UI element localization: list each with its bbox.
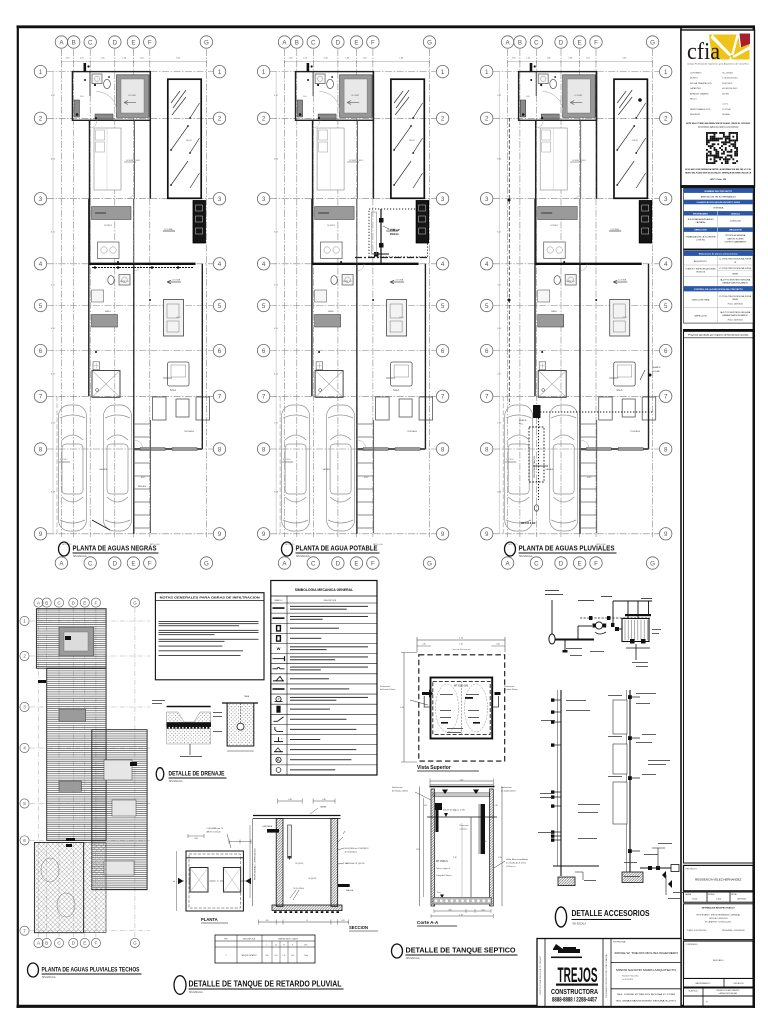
svg-text:de 12/20x40cm: de 12/20x40cm xyxy=(345,852,358,854)
svg-text:@15cm a.a.: @15cm a.a. xyxy=(506,866,516,868)
svg-text:0.15: 0.15 xyxy=(341,920,344,922)
roof plan title xyxy=(28,963,39,977)
svg-text:PLANO: 4-591756-2019: PLANO: 4-591756-2019 xyxy=(687,929,706,932)
svg-text:8888-8888 / 2288-4457: 8888-8888 / 2288-4457 xyxy=(552,998,597,1004)
svg-text:NOMBRE DEL PROYECTO: NOMBRE DEL PROYECTO xyxy=(704,191,732,193)
pump symbol xyxy=(595,622,602,629)
flow triangles xyxy=(442,790,448,795)
black separator bar xyxy=(681,185,755,188)
svg-text:DETALLE ACCESORIOS: DETALLE ACCESORIOS xyxy=(572,908,650,918)
svg-text:SIN ESCALA: SIN ESCALA xyxy=(573,923,587,926)
svg-text:PROVINCIA: HEREDIA: PROVINCIA: HEREDIA xyxy=(725,234,746,237)
svg-text:DETALLE DE TANQUE DE RETARDO P: DETALLE DE TANQUE DE RETARDO PLUVIAL xyxy=(189,980,342,989)
qr code xyxy=(706,132,738,164)
svg-text:B: B xyxy=(45,600,48,605)
svg-text:CONTROL DE LA EJECUCION DEL PR: CONTROL DE LA EJECUCION DEL PROYECTO xyxy=(694,288,743,291)
svg-text:CONSTRUCTORA: CONSTRUCTORA xyxy=(551,987,598,996)
svg-text:VIVIENDA: VIVIENDA xyxy=(713,206,724,209)
dims vista superior xyxy=(417,639,505,641)
svg-text:CLASIFICACION SEGUN DECRETO 36: CLASIFICACION SEGUN DECRETO 36550 xyxy=(697,201,741,204)
svg-text:L: L xyxy=(267,944,268,946)
bottom rows xyxy=(684,979,754,988)
proyecto name box xyxy=(684,865,754,890)
left rotated dim strip xyxy=(252,818,254,906)
right dims xyxy=(501,787,503,907)
svg-text:0.65: 0.65 xyxy=(483,841,487,843)
svg-text:4: 4 xyxy=(23,746,26,751)
svg-text:FINCA REAL: 4-234436-000: FINCA REAL: 4-234436-000 xyxy=(722,929,745,932)
svg-text:PLANTILLA: PLANTILLA xyxy=(689,990,699,993)
svg-text:Nivel de Agua 0.20: Nivel de Agua 0.20 xyxy=(443,809,466,812)
svg-text:SIMBOLOGIA MECANICA GENERAL: SIMBOLOGIA MECANICA GENERAL xyxy=(295,588,353,592)
svg-text:SIN ESCALA: SIN ESCALA xyxy=(519,555,533,558)
svg-text:en Varilla de 4.5mm: en Varilla de 4.5mm xyxy=(506,863,527,865)
inner tiny labels xyxy=(440,693,453,696)
svg-text:SELLO: SELLO xyxy=(690,99,697,101)
accessory vertical pipe left xyxy=(560,690,562,876)
svg-text:N* CATASTRO: H-1309114-2012: N* CATASTRO: H-1309114-2012 xyxy=(705,921,731,924)
svg-text:CONTRATO: CONTRATO xyxy=(690,72,702,75)
svg-text:DETALLE DE TANQUE SEPTICO: DETALLE DE TANQUE SEPTICO xyxy=(406,946,516,955)
top feed line xyxy=(613,600,652,602)
contenido box xyxy=(684,941,754,979)
roof black marks xyxy=(38,636,137,847)
svg-text:URBANIZACION LA FLORESTA: URBANIZACION LA FLORESTA xyxy=(686,236,717,239)
heater tank xyxy=(622,619,649,642)
retardo table xyxy=(215,935,315,963)
floor plan: agua potable xyxy=(257,36,448,569)
svg-text:RESIDENCIA VELEZ HERNANDEZ: RESIDENCIA VELEZ HERNANDEZ xyxy=(695,878,741,882)
svg-text:C 56,054,128.00: C 56,054,128.00 xyxy=(722,78,738,80)
svg-text:Pasa entre: Pasa entre xyxy=(460,824,469,827)
svg-text:VARILLA #3 @0.20: VARILLA #3 @0.20 xyxy=(345,862,365,865)
svg-text:Perforacion: Perforacion xyxy=(501,786,512,789)
svg-text:COLUMNA con #4: COLUMNA con #4 xyxy=(207,827,224,830)
svg-text:W: W xyxy=(277,646,281,651)
svg-text:2: 2 xyxy=(23,654,26,659)
svg-text:DIRECCION: DIRECCION xyxy=(694,230,707,232)
svg-text:1.40: 1.40 xyxy=(459,644,462,646)
svg-text:SECCION: SECCION xyxy=(349,925,368,930)
svg-text:Linea de Excavacion: Linea de Excavacion xyxy=(452,649,470,651)
svg-text:0.40: 0.40 xyxy=(322,799,326,801)
symbology table xyxy=(271,581,377,776)
svg-text:PLANTA DE AGUA POTABLE: PLANTA DE AGUA POTABLE xyxy=(296,544,378,553)
svg-text:F: F xyxy=(94,600,97,605)
gravel bottom xyxy=(433,898,492,905)
svg-text:1.36: 1.36 xyxy=(459,914,462,916)
svg-text:Camaras: Camaras xyxy=(460,828,468,831)
salida xyxy=(338,884,350,887)
retardo seccion xyxy=(253,815,341,817)
project data table xyxy=(684,188,754,323)
plan3 pluvial downspout dashes xyxy=(508,118,510,405)
svg-text:PROFESIONAL:: PROFESIONAL: xyxy=(613,941,627,944)
svg-text:Fecha: 13/07/2022: Fecha: 13/07/2022 xyxy=(728,304,743,306)
svg-text:1.15: 1.15 xyxy=(283,955,286,957)
septic tank top view dashed excavation xyxy=(419,655,505,761)
registro publico box xyxy=(684,904,754,940)
svg-text:OC-129456: OC-129456 xyxy=(722,73,734,75)
svg-text:PLANTA DE AGUAS NEGRAS: PLANTA DE AGUAS NEGRAS xyxy=(73,544,157,553)
septic corte walls xyxy=(430,786,495,788)
svg-text:0.60: 0.60 xyxy=(194,838,198,840)
svg-text:Cargo del Cliente: Cargo del Cliente xyxy=(436,874,452,877)
svg-text:de salida 100mm: de salida 100mm xyxy=(504,689,518,691)
inlet outlet arrows xyxy=(422,690,433,698)
svg-text:CONTENIDO:: CONTENIDO: xyxy=(686,944,699,946)
svg-text:Cel: 8750-0974: Cel: 8750-0974 xyxy=(622,979,633,981)
svg-text:Ø12mm: Ø12mm xyxy=(390,233,399,236)
svg-text:PLANTA: PLANTA xyxy=(201,917,218,922)
svg-text:MONTO: MONTO xyxy=(690,78,698,80)
svg-text:PROPIETARIO: PROPIETARIO xyxy=(693,212,708,215)
svg-text:AMPLIACION VELEZ HERNANDEZ: AMPLIACION VELEZ HERNANDEZ xyxy=(701,195,737,198)
svg-text:PLANTA DE AGUAS PLUVIALES TECH: PLANTA DE AGUAS PLUVIALES TECHOS xyxy=(42,967,141,974)
svg-text:DIMENSIONES TOTALES: DIMENSIONES TOTALES xyxy=(278,937,299,940)
inlet elbow left xyxy=(435,803,442,832)
svg-text:TIPO: TIPO xyxy=(224,938,229,940)
svg-text:7: 7 xyxy=(23,928,26,933)
svg-text:APC / Folio 123: APC / Folio 123 xyxy=(710,178,727,181)
svg-text:SIN ESCALA: SIN ESCALA xyxy=(42,976,56,979)
svg-text:Vista Superior: Vista Superior xyxy=(417,765,451,771)
svg-text:Colegio Federado de Ingenieros: Colegio Federado de Ingenieros y de Arqu… xyxy=(687,63,750,66)
roof crosshatch patio xyxy=(34,843,83,933)
svg-text:Corte A-A: Corte A-A xyxy=(417,920,439,925)
svg-text:#3 @0.20: #3 @0.20 xyxy=(308,878,316,880)
svg-text:1.10: 1.10 xyxy=(453,857,457,859)
svg-text:UBICACION: UBICACION xyxy=(729,229,742,232)
svg-text:TUB AP: TUB AP xyxy=(390,228,400,232)
svg-text:PROYECTO:: PROYECTO: xyxy=(686,869,698,871)
svg-text:IA-27971 MONTERO SEGURA: IA-27971 MONTERO SEGURA xyxy=(720,311,751,314)
svg-text:de Entrada 100mm: de Entrada 100mm xyxy=(392,790,409,793)
svg-text:G: G xyxy=(133,600,137,605)
dashed supply line xyxy=(580,617,650,619)
svg-text:DIRECCION OBRA: DIRECCION OBRA xyxy=(692,299,710,302)
svg-text:1.20: 1.20 xyxy=(498,857,502,859)
svg-text:B: B xyxy=(45,941,48,946)
title block separator xyxy=(680,27,682,1006)
septic corte A-A top dims xyxy=(430,780,493,782)
svg-text:5: 5 xyxy=(23,801,26,806)
svg-text:F: F xyxy=(94,941,97,946)
svg-text:UBICACION: UBICACION xyxy=(734,982,745,985)
svg-text:DIGITAL: DIGITAL xyxy=(722,113,731,116)
svg-text:JESUS MARIA HERNANDEZ: JESUS MARIA HERNANDEZ xyxy=(687,218,714,221)
svg-text:RED A.N.: RED A.N. xyxy=(138,485,147,488)
svg-text:CARVAJAL: CARVAJAL xyxy=(695,221,706,224)
svg-text:IC-27946 TREJOS MOLINA JORGE: IC-27946 TREJOS MOLINA JORGE xyxy=(719,258,752,261)
svg-text:6: 6 xyxy=(23,838,26,843)
svg-text:SEBASTIAN EDUARDO: SEBASTIAN EDUARDO xyxy=(722,314,749,317)
svg-text:C.I.V.L.: C.I.V.L. xyxy=(722,104,729,106)
svg-text:0.85: 0.85 xyxy=(448,909,451,911)
svg-text:Pluv: Pluv xyxy=(519,424,523,426)
svg-text:CEDULA: CEDULA xyxy=(731,212,741,215)
svg-text:ING. SEBASTIAN MONTERO SEGURA: ING. SEBASTIAN MONTERO SEGURA IS-27971 xyxy=(616,1000,677,1003)
svg-text:de Entrada 100mm: de Entrada 100mm xyxy=(380,688,396,691)
svg-text:BLOQUES de CONCRETO: BLOQUES de CONCRETO xyxy=(345,848,370,850)
title plan 3 xyxy=(505,542,516,556)
svg-text:INSPECCION: INSPECCION xyxy=(694,316,707,318)
drainage well detail xyxy=(227,703,254,746)
floor plan: aguas negras xyxy=(34,36,225,569)
svg-text:13/07/2022: 13/07/2022 xyxy=(722,83,733,85)
svg-text:Fecha: 13/07/2022: Fecha: 13/07/2022 xyxy=(728,319,743,321)
retardo title xyxy=(174,976,186,995)
plan3 pluvial route xyxy=(533,405,541,418)
svg-text:TAPAS: TAPAS xyxy=(320,806,327,809)
svg-text:CATASTRO: CATASTRO xyxy=(690,87,701,90)
svg-text:169 M2: 169 M2 xyxy=(722,93,730,95)
svg-text:MSMR: MSMR xyxy=(733,273,739,275)
cfia sticker box xyxy=(681,30,755,187)
middle divider xyxy=(470,817,472,897)
svg-text:SIN ESCALA: SIN ESCALA xyxy=(169,780,183,783)
svg-text:REVISION: REVISION xyxy=(690,114,700,116)
svg-text:SIN ESCALA: SIN ESCALA xyxy=(296,555,310,558)
svg-text:ARQUITECTO: ARQUITECTO xyxy=(694,260,708,263)
svg-text:MT 1500-S: MT 1500-S xyxy=(436,860,448,863)
accessory title xyxy=(555,907,566,927)
svg-text:IC-27946 TREJOS MOLINA JORGE: IC-27946 TREJOS MOLINA JORGE xyxy=(719,295,752,298)
floor plan: aguas pluviales xyxy=(481,36,672,569)
svg-text:G: G xyxy=(133,941,137,946)
roof plan grid xyxy=(38,608,40,938)
svg-text:Perforacion: Perforacion xyxy=(380,686,390,688)
drainage section detail xyxy=(167,706,211,708)
svg-text:Perforacion: Perforacion xyxy=(504,686,514,688)
svg-text:CANTON: FLORES: CANTON: FLORES xyxy=(727,237,744,240)
svg-text:0.40: 0.40 xyxy=(288,799,292,801)
retardo planta xyxy=(186,851,243,911)
svg-text:SIN ESCALA: SIN ESCALA xyxy=(73,555,87,558)
drainage title xyxy=(156,768,164,781)
roof hatched areas xyxy=(36,609,106,669)
svg-text:de Salida 100mm: de Salida 100mm xyxy=(501,791,516,793)
title plan 1 xyxy=(59,542,70,556)
accessory cluster top xyxy=(549,634,555,644)
svg-text:IC-27946: IC-27946 xyxy=(722,109,731,111)
plan1 sanitary pipe marks xyxy=(92,267,193,269)
svg-text:IC-27946 TREJOS MOLINA JORGE: IC-27946 TREJOS MOLINA JORGE xyxy=(719,267,752,270)
svg-text:SIMBOLO: SIMBOLO xyxy=(274,600,283,602)
svg-text:1: 1 xyxy=(23,619,26,624)
svg-text:TECNICOS: TECNICOS xyxy=(696,272,706,274)
notes box NOTAS GENERALES xyxy=(155,593,264,680)
svg-text:1.45: 1.45 xyxy=(400,707,404,709)
svg-text:TANQUE RETARDO: TANQUE RETARDO xyxy=(241,954,257,957)
septic tank body top view xyxy=(431,678,493,739)
svg-text:#3 @0.20: #3 @0.20 xyxy=(295,863,303,865)
svg-text:SEBASTIAN EDUARDO: SEBASTIAN EDUARDO xyxy=(722,282,749,285)
svg-text:H-1309114-2012: H-1309114-2012 xyxy=(722,88,738,90)
svg-text:NOTAS GENERALES PARA OBRAS DE: NOTAS GENERALES PARA OBRAS DE INFILTRACI… xyxy=(160,595,260,599)
svg-text:DISTRITO: BARRANTES: DISTRITO: BARRANTES xyxy=(725,241,747,244)
svg-text:cfia: cfia xyxy=(687,39,720,65)
svg-text:ESTE SELLO TIENE VAN RADIACION: ESTE SELLO TIENE VAN RADIACION DE UN ANO… xyxy=(686,122,751,125)
svg-text:ING. JORGE W TREJOS MOLINA IC-: ING. JORGE W TREJOS MOLINA IC-27946 xyxy=(617,993,676,996)
bottom dim xyxy=(258,921,348,923)
svg-text:RESPONSABLE POR: RESPONSABLE POR xyxy=(690,108,711,111)
lamina/escala/fecha row xyxy=(684,892,754,902)
approval declaration box xyxy=(684,330,754,332)
svg-text:E: E xyxy=(83,941,86,946)
water line xyxy=(427,816,497,818)
svg-text:IA-27971 MONTERO SEGURA: IA-27971 MONTERO SEGURA xyxy=(720,278,751,281)
svg-text:SUBE B.: SUBE B. xyxy=(519,420,527,422)
svg-text:0.90: 0.90 xyxy=(266,955,269,957)
svg-text:1.40: 1.40 xyxy=(460,779,464,781)
svg-text:DESCRIPCION: DESCRIPCION xyxy=(324,600,337,602)
svg-text:DETALLE DE DRENAJE: DETALLE DE DRENAJE xyxy=(169,771,225,778)
svg-text:JORGE W. TREJOS MOLINA INGENIE: JORGE W. TREJOS MOLINA INGENIERO xyxy=(614,952,678,955)
svg-text:VOL: VOL xyxy=(304,944,307,946)
svg-text:1.00: 1.00 xyxy=(291,955,294,957)
svg-text:BAJANTE: BAJANTE xyxy=(652,366,661,369)
svg-text:CEDULA: 2-0309-0150: CEDULA: 2-0309-0150 xyxy=(709,917,727,920)
svg-text:PROPIETARIO: JESUS HERNANDEZ C: PROPIETARIO: JESUS HERNANDEZ CARVAJAL xyxy=(696,914,740,917)
svg-text:2-0309-0150: 2-0309-0150 xyxy=(730,221,742,223)
roof gray boxes xyxy=(59,627,94,656)
svg-text:0.16: 0.16 xyxy=(494,805,497,807)
svg-text:SALIDA: SALIDA xyxy=(346,889,354,892)
title plan 2 xyxy=(282,542,293,556)
svg-text:FECHA TRAMITACION: FECHA TRAMITACION xyxy=(690,82,712,85)
svg-text:0.20: 0.20 xyxy=(424,805,427,807)
cluster labels xyxy=(545,589,559,592)
svg-text:SIN ESCALA: SIN ESCALA xyxy=(189,991,203,994)
plan2 potable piping route dotted rect xyxy=(369,209,428,257)
trejos logo xyxy=(551,944,598,1004)
svg-text:1.50: 1.50 xyxy=(416,849,420,851)
under dims xyxy=(434,910,491,912)
svg-text:0.40: 0.40 xyxy=(422,644,425,646)
svg-text:Proyecto aprobado por regimen: Proyecto aprobado por regimen de Declara… xyxy=(688,334,749,337)
svg-text:0.40: 0.40 xyxy=(496,644,499,646)
svg-text:Valla Electrosoldada: Valla Electrosoldada xyxy=(506,858,529,861)
svg-text:INDICADO: INDICADO xyxy=(713,959,724,962)
svg-text:AREA DE TRAMITE: AREA DE TRAMITE xyxy=(690,92,709,95)
svg-text:PROHIBIDA SU REPRODUCCION TOTA: PROHIBIDA SU REPRODUCCION TOTAL O PARCIA… xyxy=(605,954,608,998)
svg-text:SI NO HAY CONCORDANCIA ENTRE L: SI NO HAY CONCORDANCIA ENTRE LA INFORMAC… xyxy=(685,168,752,171)
svg-text:MT 1500 S/B: MT 1500 S/B xyxy=(454,685,468,688)
outlet pipe right xyxy=(481,804,486,854)
bottom band frame xyxy=(537,939,681,1007)
svg-text:Tema y sujeta a: Tema y sujeta a xyxy=(436,867,451,870)
svg-text:1:100: 1:100 xyxy=(716,899,722,901)
page border xyxy=(17,25,756,28)
tapas dims xyxy=(278,800,303,802)
svg-text:ND 100 8 GR: ND 100 8 GR xyxy=(521,522,536,525)
svg-text:(vencindonos aplica otros plan: (vencindonos aplica otros planos constru… xyxy=(698,126,738,129)
cfia logo xyxy=(687,34,750,66)
accessory vertical pipe right xyxy=(629,690,631,872)
svg-text:ENTRADA: ENTRADA xyxy=(263,825,273,828)
svg-text:PLANOS Y ESPECIFICACIONES: PLANOS Y ESPECIFICACIONES xyxy=(686,267,717,270)
svg-text:Elaboracion de planos y Docume: Elaboracion de planos y Documentos xyxy=(699,252,739,255)
septic title xyxy=(392,944,403,958)
svg-text:0.15: 0.15 xyxy=(265,920,268,922)
svg-text:INFORMACION REGISTRO PUBLICO: INFORMACION REGISTRO PUBLICO xyxy=(702,907,736,910)
svg-text:3: 3 xyxy=(23,705,26,710)
svg-text:MANTENIMIENTO: MANTENIMIENTO xyxy=(695,982,711,985)
svg-text:DESCRIPCION: DESCRIPCION xyxy=(243,938,256,940)
svg-text:E: E xyxy=(83,600,86,605)
svg-text:MSMR: MSMR xyxy=(733,299,739,301)
svg-text:LOTE 7B2: LOTE 7B2 xyxy=(696,240,705,242)
svg-text:13/07/2022: 13/07/2022 xyxy=(737,899,746,901)
svg-text:TAPA: TAPA xyxy=(244,695,250,698)
svg-text:SIN ESCALA: SIN ESCALA xyxy=(406,957,420,960)
svg-text:Perforacion: Perforacion xyxy=(392,786,403,789)
accessory cluster bottom right mini xyxy=(640,867,674,869)
svg-text:#3 @0.20 A 0: #3 @0.20 A 0 xyxy=(293,887,304,890)
svg-text:RESTO DEL PLANO ESTE NO ES VAL: RESTO DEL PLANO ESTE NO ES VALIDO. VERIF… xyxy=(685,172,752,175)
svg-text:PLANTA DE AGUAS PLUVIALES: PLANTA DE AGUAS PLUVIALES xyxy=(519,544,615,553)
svg-text:1.00: 1.00 xyxy=(275,955,278,957)
svg-text:CONSTRUCTORA TREJOS S.A. TEL 2: CONSTRUCTORA TREJOS S.A. TEL 2288-4457 xyxy=(539,956,542,995)
svg-text:PLUVIAL: PLUVIAL xyxy=(652,370,660,373)
svg-text:VER DETALLE TANQUE: VER DETALLE TANQUE xyxy=(533,455,536,478)
svg-text:0.62: 0.62 xyxy=(481,909,484,911)
left dims xyxy=(419,787,421,907)
svg-text:MINOR SANCHO MARIN ARQUITECTO: MINOR SANCHO MARIN ARQUITECTO xyxy=(616,969,676,972)
svg-text:PROFUNDIDAD s. VERIFICACION: PROFUNDIDAD s. VERIFICACION xyxy=(254,848,257,880)
svg-text:AROS #3 @0.20: AROS #3 @0.20 xyxy=(207,831,221,834)
